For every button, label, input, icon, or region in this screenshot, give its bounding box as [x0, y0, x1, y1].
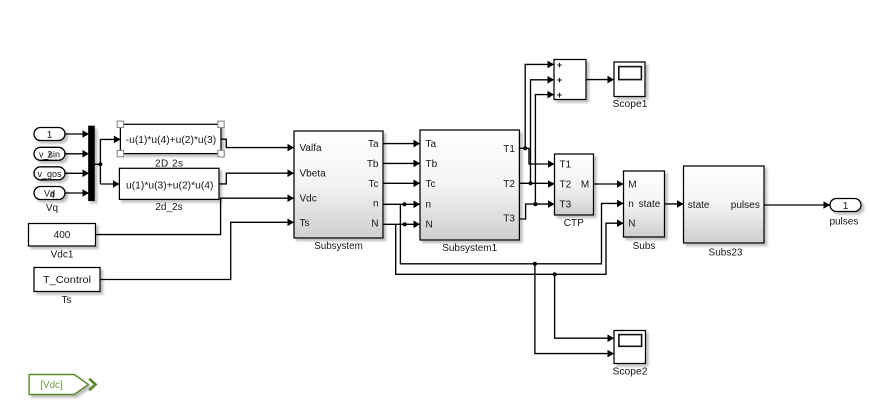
svg-text:M: M	[628, 179, 636, 190]
svg-text:pulses: pulses	[829, 217, 858, 228]
svg-text:4: 4	[50, 190, 55, 200]
svg-text:2D 2s: 2D 2s	[155, 158, 183, 169]
svg-text:T3: T3	[503, 214, 515, 225]
svg-text:Tc: Tc	[369, 179, 379, 190]
svg-text:n: n	[373, 199, 379, 210]
svg-text:Tc: Tc	[426, 179, 436, 190]
svg-text:v_gos: v_gos	[37, 169, 62, 179]
svg-text:N: N	[371, 218, 378, 229]
svg-text:Ta: Ta	[368, 139, 379, 150]
svg-text:N: N	[628, 219, 635, 230]
svg-text:Subsystem: Subsystem	[314, 241, 363, 252]
svg-text:n: n	[628, 199, 634, 210]
svg-text:n: n	[426, 199, 432, 210]
svg-text:Scope2: Scope2	[613, 367, 648, 378]
svg-text:T2: T2	[560, 180, 572, 191]
svg-text:Ts: Ts	[300, 218, 310, 229]
svg-text:T1: T1	[503, 144, 515, 155]
svg-text:T_Control: T_Control	[43, 275, 91, 286]
svg-text:Ta: Ta	[426, 139, 437, 150]
svg-text:-u(1)*u(4)+u(2)*u(3): -u(1)*u(4)+u(2)*u(3)	[126, 135, 217, 146]
svg-text:pulses: pulses	[731, 200, 760, 211]
svg-text:Subsystem1: Subsystem1	[442, 243, 497, 254]
svg-text:T2: T2	[503, 179, 515, 190]
svg-text:Subs23: Subs23	[709, 248, 743, 259]
svg-text:Vdc1: Vdc1	[51, 250, 74, 261]
svg-text:state: state	[688, 200, 710, 211]
svg-text:Vbeta: Vbeta	[300, 169, 327, 180]
svg-text:Subs: Subs	[633, 241, 656, 252]
svg-text:Scope1: Scope1	[613, 99, 648, 110]
svg-text:Ts: Ts	[62, 295, 72, 306]
svg-text:+: +	[557, 75, 563, 86]
svg-text:T3: T3	[560, 200, 572, 211]
svg-text:400: 400	[54, 230, 71, 241]
svg-text:+: +	[557, 90, 563, 101]
svg-text:CTP: CTP	[564, 218, 584, 229]
svg-text:N: N	[426, 219, 433, 230]
svg-text:Tb: Tb	[367, 159, 379, 170]
svg-text:T1: T1	[560, 160, 572, 171]
svg-text:Tb: Tb	[426, 159, 438, 170]
svg-text:Valfa: Valfa	[300, 143, 322, 154]
svg-text:2d_2s: 2d_2s	[155, 202, 182, 213]
svg-text:2: 2	[47, 149, 52, 159]
svg-text:u(1)*u(3)+u(2)*u(4): u(1)*u(3)+u(2)*u(4)	[126, 180, 214, 191]
svg-text:Vdc: Vdc	[300, 194, 317, 205]
svg-text:1: 1	[843, 201, 849, 212]
svg-text:Vq: Vq	[46, 203, 58, 214]
svg-text:state: state	[639, 199, 661, 210]
svg-text:1: 1	[47, 130, 53, 141]
svg-text:M: M	[581, 180, 589, 191]
svg-text:[Vdc]: [Vdc]	[40, 380, 63, 391]
svg-text:+: +	[557, 60, 563, 71]
